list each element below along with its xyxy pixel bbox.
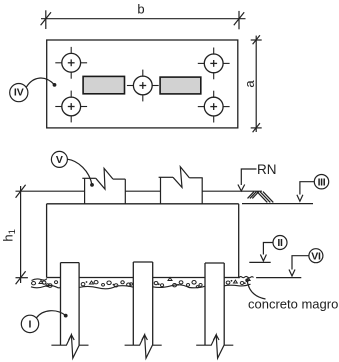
pile 1 section [61,263,80,346]
label IV bubble [10,84,28,102]
svg-text:RN: RN [257,162,277,177]
svg-text:II: II [277,237,283,249]
dimension h1 [1,185,28,285]
level line VI [256,277,301,279]
label VI bubble [309,249,323,263]
svg-text:a: a [242,80,257,88]
label III bubble [314,175,328,189]
level line III [242,203,313,205]
dimension b [41,2,246,30]
pile plan middle [127,70,159,102]
label VI leader [289,256,309,276]
pile plan top-left [55,47,87,79]
pile plan bottom-right [198,91,230,123]
label II leader [260,243,273,261]
lean concrete right top wavy [239,276,254,278]
pile 2 section [133,262,152,345]
cap section top edge [47,203,239,205]
ground line left segment [16,190,85,192]
svg-text:b: b [137,2,144,17]
level line II [249,261,270,263]
dimension a [242,35,262,132]
label I bubble [21,315,38,332]
svg-text:V: V [56,154,63,166]
label IV leader [26,78,56,87]
column stub 2 [159,167,203,204]
pile plan bottom-left [55,91,87,123]
ground hatch [248,192,274,203]
cap section bottom edge segments [47,277,239,279]
pile plan top-right [198,48,230,80]
cap section right edge [238,204,240,278]
pile 1 break [51,335,88,358]
RN label [238,162,277,191]
svg-text:h1: h1 [1,229,19,242]
column stub 1 [82,168,125,203]
cap section left edge [46,204,48,278]
label II bubble [273,236,287,250]
label III leader [297,182,314,202]
concreto magro label [245,279,338,312]
label I leader [36,311,67,318]
lean concrete bottom wavy line [31,284,251,289]
ground line right segment [202,190,262,192]
svg-text:concreto magro: concreto magro [248,297,338,312]
svg-text:I: I [29,319,32,331]
svg-text:III: III [318,176,326,188]
lean concrete pebbles [32,278,251,288]
plan cap outline [47,40,238,128]
column plan rect 1 [83,76,124,93]
label V leader [67,159,94,187]
column plan rect 2 [160,77,201,94]
label V bubble [51,151,67,167]
svg-text:IV: IV [14,86,24,98]
lean concrete left top wavy [32,279,47,281]
pile 3 section [205,263,224,345]
ground line middle segment [125,190,160,192]
svg-text:VI: VI [311,250,321,262]
pile 3 break [196,335,233,358]
pile 2 break [125,335,162,358]
